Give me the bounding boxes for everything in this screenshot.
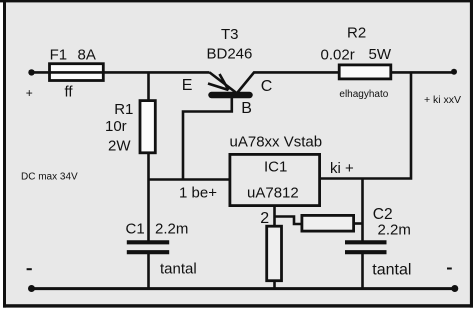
svg-text:R1: R1: [114, 101, 133, 118]
svg-text:C2: C2: [373, 206, 393, 223]
svg-text:10r: 10r: [105, 118, 127, 135]
wire R1 top: [147, 72, 150, 100]
node output terminal: [451, 69, 457, 75]
svg-text:elhagyhato: elhagyhato: [339, 89, 388, 100]
svg-text:tantal: tantal: [160, 261, 197, 278]
resistor (divider, horizontal): [302, 215, 354, 231]
capacitor C2: [345, 242, 387, 252]
wire input node to IC pin 1: [149, 178, 231, 181]
svg-text:5W: 5W: [369, 46, 392, 63]
svg-text:tantal: tantal: [372, 261, 411, 278]
resistor (divider, vertical): [267, 226, 282, 281]
wire output riser (IC out to top rail): [321, 72, 411, 178]
svg-text:C1: C1: [126, 221, 145, 238]
ground rail (bottom): [32, 287, 455, 290]
svg-text:C: C: [261, 78, 273, 95]
label - (output polarity): [447, 268, 452, 270]
node - input terminal: [28, 285, 35, 292]
wire base to input node: [183, 95, 232, 180]
svg-text:2.2m: 2.2m: [378, 222, 411, 239]
svg-text:F1: F1: [50, 47, 68, 64]
svg-text:DC max 34V: DC max 34V: [21, 172, 78, 183]
svg-text:2W: 2W: [108, 138, 131, 155]
regulator IC1: [230, 154, 320, 205]
node - output terminal: [451, 285, 458, 292]
svg-text:8A: 8A: [78, 47, 96, 64]
wire R2 right to output terminal: [392, 71, 454, 74]
wire IC pin 2 down: [273, 206, 276, 227]
capacitor C1: [127, 242, 169, 252]
fuse F1: [50, 64, 104, 81]
wire C2 top: [361, 179, 364, 241]
wire divider resistor to output node: [353, 222, 363, 225]
resistor R2: [339, 65, 391, 79]
svg-text:T3: T3: [221, 26, 239, 43]
svg-text:R2: R2: [347, 25, 366, 42]
node + input terminal: [28, 69, 34, 75]
resistor R1: [140, 101, 155, 153]
svg-text:1 be+: 1 be+: [179, 185, 217, 202]
svg-text:BD246: BD246: [207, 46, 253, 63]
wire divider resistor to ground rail: [273, 281, 276, 289]
svg-text:uA78xx Vstab: uA78xx Vstab: [230, 134, 323, 151]
wire input to emitter: [32, 71, 210, 74]
label - (input polarity): [27, 268, 32, 270]
svg-text:uA7812: uA7812: [247, 185, 299, 202]
wire C1 bottom: [147, 254, 150, 289]
svg-text:0.02r: 0.02r: [321, 47, 355, 64]
wire pin 2 jog to divider resistor: [275, 217, 302, 225]
wire C2 bottom: [361, 254, 364, 289]
svg-text:+: +: [26, 86, 33, 100]
transistor base bar: [212, 92, 250, 99]
emitter arrow (PNP): [208, 74, 229, 90]
svg-text:2.2m: 2.2m: [155, 221, 188, 238]
svg-text:B: B: [241, 100, 252, 117]
svg-text:IC1: IC1: [264, 159, 287, 176]
svg-text:ff: ff: [65, 84, 74, 101]
svg-text:E: E: [182, 77, 193, 94]
svg-text:ki +: ki +: [330, 160, 354, 177]
svg-text:+ ki xxV: + ki xxV: [424, 94, 461, 106]
transistor collector wire: [238, 72, 339, 92]
svg-text:2: 2: [260, 210, 269, 227]
transistor Q T3 emitter wire: [210, 72, 237, 93]
wire R1 bottom to C1: [147, 153, 150, 241]
